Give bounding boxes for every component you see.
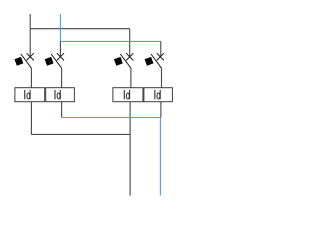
wire: feeder F1 down from Id1 [30,102,32,135]
RCD Id2 label [54,90,60,99]
RCD Id4 label [154,90,160,99]
wire: bus L1 horizontal run [30,28,130,30]
wire: bus L1 drop to breaker Q3 [129,29,131,57]
breaker Q3 [114,53,133,68]
breaker Q4 [145,53,164,68]
wire: breaker Q2 to RCD Id2 [61,68,63,88]
wire: feeder F4 down from Id4 to node J2 [160,102,162,118]
RCD Id1 label [24,90,30,99]
breaker Q2 [45,53,64,68]
breaker Q1 [14,53,33,68]
wire: outgoing blue feeder down from node J2 [159,118,161,196]
wire: breaker Q4 to RCD Id4 [161,68,163,88]
wire: incomer L2 vertical drop (blue) [59,14,61,41]
RCD Id1 box [15,88,45,102]
RCD Id4 box [144,88,173,102]
wire: breaker Q3 to RCD Id3 [130,68,132,88]
wire: bus L2 horizontal run (blue) [60,40,160,42]
RCD Id2 box [46,88,75,102]
wire: feeder F2 horizontal to node J2 (blue) [62,117,161,119]
wire: incomer L1 vertical drop [29,14,31,57]
wire: bus L2 drop to breaker Q2 [59,41,61,56]
wire: feeder F1 horizontal to node J1 [31,133,130,135]
RCD Id3 label [124,90,130,99]
wire: breaker Q1 to RCD Id1 [30,68,32,88]
wire: bus L2 drop to breaker Q4 [160,41,162,56]
RCD Id3 box [113,88,143,102]
wire: feeder F3 down from Id3 to outgoing end [129,102,131,196]
wire: feeder F2 down from Id2 [61,102,63,118]
